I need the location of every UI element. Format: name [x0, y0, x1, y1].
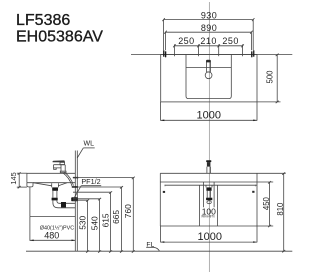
- drain elbow and horizontal pipe (side): [53, 200, 75, 207]
- PF1/2 underline: [81, 185, 101, 187]
- drain tailpipe (side): [53, 191, 57, 198]
- drain funnel (front): [206, 187, 211, 190]
- svg-text:930: 930: [201, 10, 217, 20]
- svg-text:530: 530: [77, 215, 87, 229]
- faucet (side): spout: [53, 165, 65, 170]
- svg-text:540: 540: [89, 216, 99, 230]
- faucet body (plan): [206, 60, 210, 72]
- faucet front: lever: [206, 160, 211, 162]
- right mounting bracket: [251, 50, 254, 57]
- svg-text:Ø40(1½")PVC: Ø40(1½")PVC: [40, 224, 74, 231]
- drain ring (front): [207, 201, 211, 204]
- dimension 500 (plan right): [257, 54, 280, 104]
- svg-text:250: 250: [222, 36, 238, 46]
- svg-text:145: 145: [9, 172, 18, 184]
- dimension 1000 (plan): [161, 102, 258, 121]
- slab front lip (side): [27, 183, 33, 187]
- svg-text:890: 890: [201, 23, 217, 33]
- svg-text:WL: WL: [84, 141, 95, 148]
- supply stub upper (WL height): [73, 177, 78, 178]
- wall line inner (side): [76, 151, 78, 252]
- WL underline: [83, 147, 94, 149]
- dimension 615: [73, 191, 112, 251]
- PF1/2 leader: [73, 186, 81, 200]
- svg-text:480: 480: [44, 231, 59, 241]
- drain collar (front): [206, 185, 212, 187]
- supply valve (side): [71, 197, 78, 201]
- svg-text:665: 665: [111, 210, 121, 224]
- dimension 145 (side left): [17, 172, 27, 188]
- centerline (vertical symmetry axis): [208, 2, 210, 272]
- dimension 810 (far right): [282, 172, 285, 252]
- svg-text:1000: 1000: [198, 231, 222, 243]
- dimension 1000 (front): [161, 226, 258, 243]
- dimension 890: [164, 31, 252, 51]
- drain tailpipe (front): [207, 191, 210, 198]
- dimension 665: [78, 186, 124, 251]
- faucet (side): column: [60, 165, 66, 173]
- supply stub PF1/2: [72, 186, 78, 188]
- faucet (side): handle stem: [60, 162, 65, 164]
- faucet front: base outline: [207, 167, 211, 174]
- FL underline and leader curve: [146, 247, 159, 251]
- svg-text:810: 810: [276, 202, 285, 216]
- svg-text:500: 500: [266, 70, 275, 84]
- cabinet top line: [160, 172, 285, 174]
- floor line FL: [26, 250, 292, 252]
- floor end ticks of height dimensions: [86, 250, 135, 252]
- drain coupling (front): [206, 198, 212, 201]
- cabinet left side: [159, 173, 161, 226]
- svg-text:250: 250: [178, 36, 194, 46]
- dimension 480 (side bottom): [30, 217, 75, 242]
- right door hinge tick: [254, 185, 256, 187]
- svg-text:760: 760: [123, 204, 133, 218]
- drain collar (side): [52, 183, 59, 187]
- dimension 530: [73, 199, 89, 251]
- drain coupling (side): [52, 198, 58, 201]
- svg-text:615: 615: [100, 213, 110, 227]
- faucet circle (plan): [205, 72, 212, 79]
- left door split: [199, 185, 201, 226]
- right door split: [217, 185, 219, 226]
- svg-text:210: 210: [200, 36, 216, 46]
- wall line (plan): [131, 54, 292, 56]
- cabinet right side: [256, 173, 258, 226]
- drain funnel (side): [52, 187, 58, 190]
- cabinet (side): [30, 187, 75, 217]
- dimension 930: [162, 18, 254, 50]
- svg-text:1000: 1000: [197, 110, 221, 122]
- faucet (side): lever handle: [53, 160, 65, 162]
- basin inner front line (plan): [186, 66, 231, 68]
- svg-text:LF5386: LF5386: [16, 12, 70, 29]
- left mounting bracket: [163, 50, 166, 57]
- counter slab (side): [27, 173, 75, 182]
- right door handle: [252, 191, 254, 193]
- svg-text:PF1/2: PF1/2: [81, 177, 100, 186]
- faucet front: body: [207, 162, 211, 167]
- svg-text:450: 450: [262, 196, 271, 210]
- wall line outer (side): [74, 151, 76, 252]
- title text LF5386: [16, 12, 103, 46]
- WL leader line: [77, 148, 83, 158]
- basin bowl underside (side): [33, 183, 67, 186]
- cabinet bottom line: [160, 225, 257, 227]
- dimension 540: [73, 198, 101, 251]
- pipe union nut (side): [61, 202, 66, 207]
- counter rectangle (plan): [161, 55, 257, 102]
- faucet cap (plan): [206, 60, 210, 62]
- svg-text:EH05386AV: EH05386AV: [16, 29, 103, 46]
- drain enclosure left line: [203, 182, 205, 207]
- svg-text:(附排水零件): (附排水零件): [201, 214, 215, 218]
- dimension 250 210 250: [173, 44, 244, 56]
- dimension 760: [73, 177, 135, 252]
- drain enclosure right line: [213, 182, 215, 207]
- left door hinge tick: [164, 185, 166, 187]
- door top line: [165, 184, 257, 186]
- basin outline (plan): [186, 55, 231, 99]
- cabinet slab bottom line: [160, 181, 273, 183]
- dimension 450 (front right): [257, 181, 273, 227]
- supply hose to faucet (side): [63, 172, 74, 186]
- left door handle: [163, 191, 165, 193]
